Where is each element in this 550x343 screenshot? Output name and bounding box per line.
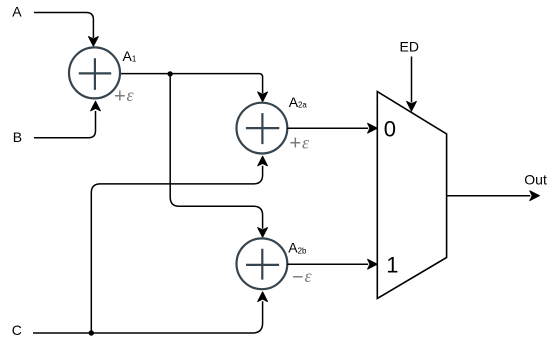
wire A to adder A1 top bbox=[34, 13, 93, 39]
svg-text:ED: ED bbox=[400, 39, 419, 55]
wire C to adder A2b bottom bbox=[33, 301, 263, 333]
adder U3 summing junction A2b bbox=[237, 238, 288, 289]
svg-text:+ε: +ε bbox=[290, 132, 310, 154]
svg-text:−ε: −ε bbox=[292, 266, 312, 288]
junction dot on A1 output bbox=[167, 71, 172, 76]
svg-text:0: 0 bbox=[384, 116, 396, 141]
svg-text:B: B bbox=[13, 129, 22, 145]
svg-text:C: C bbox=[12, 322, 22, 338]
svg-text:A: A bbox=[12, 3, 22, 19]
svg-text:1: 1 bbox=[386, 252, 398, 277]
wire ED select to mux bbox=[411, 57, 413, 103]
svg-text:Out: Out bbox=[524, 172, 547, 188]
wire B to adder A1 bottom bbox=[34, 111, 96, 138]
wire A1 output to adder A2a top bbox=[121, 74, 263, 94]
junction dot on C wire bbox=[89, 330, 94, 335]
multiplexer MUX bbox=[377, 92, 446, 299]
adder U1 summing junction A1 bbox=[69, 47, 120, 98]
adder U2 summing junction A2a bbox=[237, 103, 288, 154]
wire A2b output to mux input 1 bbox=[287, 263, 368, 265]
wire junction to adder A2b top bbox=[170, 75, 262, 229]
wire mux output Out bbox=[447, 195, 531, 197]
wire C junction to adder A2a bottom bbox=[91, 166, 262, 331]
svg-text:+ε: +ε bbox=[114, 85, 134, 107]
wire A2a output to mux input 0 bbox=[287, 127, 368, 129]
